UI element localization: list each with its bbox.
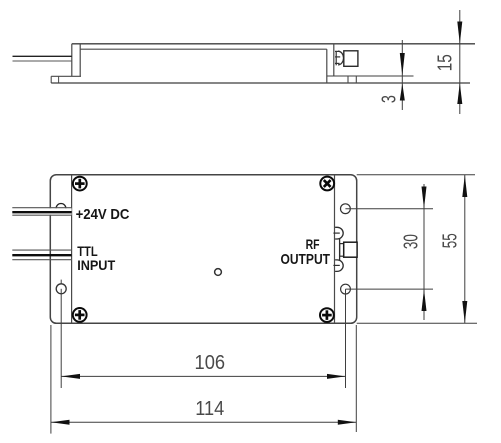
dim 55 top arrow	[462, 175, 467, 197]
dim 106 left arrow	[61, 374, 80, 379]
dim 30 top arrow	[422, 187, 427, 209]
dim 106 line	[61, 375, 345, 377]
screw bottom-left	[73, 308, 87, 322]
dimension 15 top arrow	[457, 22, 462, 44]
right end wall outer edge	[333, 44, 335, 76]
screw top-right (x slot)	[317, 174, 337, 194]
dim 55 line	[464, 175, 466, 324]
center hole	[215, 269, 222, 276]
right end plate inner line	[334, 175, 336, 324]
screw top-left	[73, 177, 87, 191]
svg-text:55: 55	[440, 233, 462, 248]
RF connector barrel arc (side view)	[338, 51, 344, 65]
RF connector square flange (side view)	[344, 51, 358, 67]
left wall hole (top, behind cable)	[56, 204, 66, 214]
RF connector square body (plan)	[344, 242, 357, 257]
dim 114 left arrow	[51, 420, 70, 425]
dimension 3 line	[401, 40, 403, 110]
right end wall inner edge	[326, 49, 328, 83]
svg-text:+24V DC: +24V DC	[76, 206, 130, 223]
cable 1 (plan view, +24V DC)	[12, 208, 71, 216]
lid underside line	[80, 48, 327, 50]
svg-text:OUTPUT: OUTPUT	[281, 251, 331, 268]
RF connector bottom lug centerline tick	[333, 264, 339, 266]
left end wall outer edge	[71, 44, 73, 77]
RF connector barrel bracket (side view)	[335, 51, 340, 65]
screw bottom-right	[320, 308, 334, 322]
svg-text:15: 15	[435, 54, 457, 71]
left flange tab left edge	[50, 76, 52, 83]
boss tab tick right under right end	[355, 76, 357, 83]
dim 114 right arrow	[338, 420, 357, 425]
RF connector flange edge (plan)	[339, 239, 341, 261]
svg-text:106: 106	[195, 352, 226, 374]
dim 55 bottom arrow	[462, 301, 467, 323]
body bottom step line at right end (extension line for dim 3)	[327, 75, 414, 77]
dim 106 right arrow	[327, 374, 346, 379]
cable lower line (side view)	[13, 60, 72, 62]
flange hole left (plan bottom)	[56, 284, 66, 294]
dim 30 line	[423, 184, 425, 320]
RF connector bottom lug (plan)	[335, 260, 343, 272]
dim 55 extension line bottom	[357, 322, 477, 324]
svg-text:114: 114	[195, 398, 224, 420]
flange bottom line (extends right as extension line for dims 3 and 15)	[51, 82, 470, 84]
dim 106 extension line left	[60, 289, 62, 388]
boss tab tick left under right end	[347, 76, 349, 83]
dimension 3 top arrow	[400, 53, 405, 76]
flange hole extension tick above left hole	[60, 280, 62, 284]
dim 114 extension line right	[355, 325, 357, 432]
RF connector top lug (plan)	[335, 227, 343, 239]
cable 2 (plan view, TTL)	[12, 250, 71, 260]
svg-text:INPUT: INPUT	[77, 257, 115, 273]
dimension 15 bottom arrow	[457, 83, 462, 104]
left flange tab tick	[58, 76, 60, 83]
enclosure outline rounded rect	[50, 175, 356, 324]
dim 55 extension line top	[357, 174, 475, 176]
dim 30 extension line top	[345, 208, 433, 210]
RF connector top lug centerline tick	[333, 232, 339, 234]
cable upper line (side view)	[13, 55, 72, 57]
svg-text:3: 3	[378, 95, 400, 103]
dim 106 extension line right	[345, 289, 347, 388]
enclosure lid top line (extends right as extension line for dim 15)	[72, 43, 475, 45]
left end wall inner edge	[79, 44, 81, 77]
dimension 15 line	[459, 10, 461, 114]
RF connector neck (plan)	[340, 244, 344, 257]
svg-text:30: 30	[401, 234, 423, 249]
right wall hole top	[341, 204, 351, 214]
left flange tab top edge	[51, 75, 81, 77]
svg-text:RF: RF	[306, 236, 320, 252]
right wall hole bottom	[341, 284, 351, 294]
dim 114 extension line left	[50, 325, 52, 434]
dim 30 bottom arrow	[422, 289, 427, 311]
dim 30 extension line bottom	[346, 288, 434, 290]
dim 114 line	[51, 421, 356, 423]
left end plate inner line	[71, 175, 73, 324]
dimension 3 bottom arrow	[400, 83, 405, 100]
